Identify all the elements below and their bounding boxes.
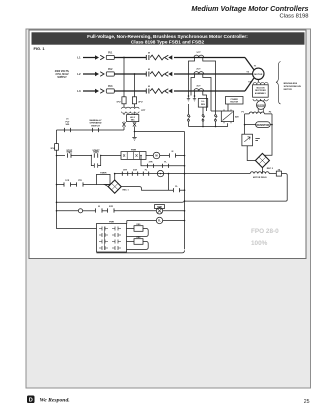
svg-text:M: M (155, 154, 157, 158)
OL heater pole 2 (150, 72, 164, 77)
wire coil drop to relay row (168, 174, 170, 191)
svg-text:3TR: 3TR (123, 170, 127, 172)
svg-text:PWR: PWR (131, 149, 137, 151)
svg-text:We Respond.: We Respond. (40, 397, 70, 403)
wire T3 diagonal to motor (245, 78, 254, 91)
rotating rectifier assembly box (253, 85, 269, 97)
drawout stabs control right (133, 122, 136, 126)
black title bar (32, 32, 305, 44)
rectifier REC 2 (255, 153, 269, 167)
footer Square D logo (27, 396, 35, 404)
svg-text:480 V: 480 V (130, 116, 136, 119)
field control device box (242, 134, 253, 146)
wire phase L3 (83, 90, 95, 92)
svg-text:Full-Voltage, Non-Reversing, B: Full-Voltage, Non-Reversing, Brushless S… (87, 34, 248, 40)
thermal switch TS (269, 173, 276, 175)
OL heater pole 1 (150, 55, 164, 60)
secondary block box (124, 113, 135, 115)
svg-text:1CR: 1CR (65, 180, 70, 182)
svg-text:25: 25 (304, 399, 310, 405)
svg-text:TIMER: TIMER (100, 172, 107, 174)
svg-text:2TR: 2TR (149, 161, 153, 163)
wire rectifier to field (261, 168, 263, 174)
svg-text:SWITCH: SWITCH (91, 125, 100, 127)
rotating rectifier winding bottom (253, 99, 268, 101)
disconnect DS3 (95, 89, 99, 94)
test link 3 (215, 115, 217, 117)
svg-text:Class 8198 Type FSB1 and FSB2: Class 8198 Type FSB1 and FSB2 (131, 40, 205, 46)
svg-text:AM: AM (235, 116, 239, 119)
transformer CPT primary (124, 104, 135, 107)
svg-text:L3: L3 (77, 89, 81, 93)
svg-text:L2: L2 (77, 72, 81, 76)
wire F1 down to control box (244, 125, 246, 135)
svg-text:EXCITER: EXCITER (257, 105, 266, 107)
svg-text:1TR: 1TR (78, 180, 82, 182)
ground CT mid (194, 95, 196, 97)
wire west rail (57, 129, 125, 131)
wire left rail (57, 130, 97, 229)
wire rec1 to relay row (121, 187, 173, 191)
wire L1 to contact (114, 57, 146, 59)
wire L2 to contact (114, 73, 146, 75)
row 5: field contactor coils (56, 210, 58, 212)
svg-text:Medium Voltage Motor Controlle: Medium Voltage Motor Controllers (191, 4, 308, 13)
relay box SR (198, 99, 207, 108)
label box FWR (155, 205, 165, 209)
drawout stabs pole 1 (165, 55, 169, 60)
svg-text:1CT: 1CT (196, 52, 201, 54)
svg-text:1FU: 1FU (116, 101, 121, 103)
svg-text:O.L.: O.L. (201, 101, 205, 103)
coil FC (156, 208, 162, 214)
field resistor (245, 123, 272, 125)
wire row1 (57, 155, 66, 157)
wire L3 to contact (114, 90, 146, 92)
disconnect DS2 (95, 72, 99, 77)
svg-text:FU2: FU2 (108, 69, 113, 71)
row 1: start/stop (56, 155, 58, 157)
rectifier REC 1 (105, 185, 111, 187)
svg-text:OPERATED: OPERATED (90, 122, 102, 125)
svg-text:MOTOR: MOTOR (284, 89, 293, 91)
svg-text:ASSEMBLY: ASSEMBLY (255, 92, 267, 95)
svg-text:2CT: 2CT (196, 69, 201, 71)
svg-text:SUPPLY: SUPPLY (57, 76, 67, 79)
contact CR instant (78, 209, 82, 213)
test link 2 (202, 115, 204, 117)
drawout stabs pole 2 (165, 72, 169, 77)
ammeter AM box (221, 111, 233, 122)
rotating rectifier winding top (253, 83, 268, 85)
label marks right of box (255, 139, 259, 141)
svg-text:M: M (148, 53, 150, 55)
OL heater pole 3 (150, 89, 164, 94)
svg-text:SILICON: SILICON (256, 87, 265, 89)
wire CT3 secondary left (194, 91, 196, 96)
drawout stabs control left (122, 122, 125, 126)
wire east rail (135, 131, 185, 133)
wire field return loop (185, 174, 288, 202)
wire L3 to CT3 (174, 90, 245, 92)
wire metering bus (189, 111, 228, 127)
panel exit row A (127, 228, 135, 230)
wire CT2 secondary right (203, 74, 211, 111)
svg-text:MOTOR: MOTOR (254, 74, 263, 76)
wire CT2 secondary left (191, 74, 195, 96)
exciter armature (260, 100, 262, 102)
exciter field winding F1-F2 (245, 112, 272, 117)
wire T1 diagonal to motor (245, 58, 254, 70)
row 2: aux contacts (141, 156, 185, 166)
svg-text:MOTOR FIELD: MOTOR FIELD (253, 177, 267, 179)
svg-text:Class 8198: Class 8198 (279, 14, 308, 20)
svg-text:FIG. 1: FIG. 1 (34, 46, 46, 51)
row 4: rectifier REC1 row (56, 184, 58, 186)
white figure box (29, 30, 306, 259)
svg-text:2CR: 2CR (133, 170, 138, 172)
coil FL (156, 217, 162, 223)
svg-text:FU1: FU1 (108, 53, 113, 55)
wire L1 to CT1 (174, 57, 245, 59)
svg-text:BRUSHLESS: BRUSHLESS (284, 83, 298, 85)
wire CT3 secondary right (203, 91, 207, 111)
svg-text:SEC: SEC (131, 120, 136, 122)
brace brushless synchronous motor (276, 62, 281, 105)
wire rec1 top to row3 (114, 174, 116, 180)
svg-text:RECTIFIER: RECTIFIER (255, 90, 266, 92)
seal-in contact M (91, 156, 100, 168)
svg-text:POWER: POWER (231, 99, 239, 101)
coil M (153, 152, 160, 159)
schematic group (50, 52, 301, 253)
svg-text:3CT: 3CT (196, 86, 201, 88)
wire field row (115, 173, 251, 175)
wire L2 to CT2 (174, 73, 253, 75)
wire tap from L2 (134, 74, 136, 97)
panel internal contacts (104, 227, 106, 250)
svg-text:PWR: PWR (109, 221, 114, 223)
wire F2 branch to rectifier (264, 125, 272, 156)
selector switch contact (89, 119, 102, 127)
wire phase L2 (83, 73, 95, 75)
drawout stabs pole 3 (165, 89, 169, 94)
wire CT1 secondary right (203, 58, 216, 112)
wire tap from L1 (123, 58, 125, 97)
svg-text:2FU: 2FU (138, 101, 143, 103)
motor field winding (250, 172, 269, 174)
wire box to rectifier (247, 146, 255, 161)
panel exit row B (127, 241, 135, 243)
svg-text:I.T.: I.T. (66, 119, 69, 121)
gray panel (26, 29, 311, 388)
svg-text:100%: 100% (251, 240, 268, 247)
svg-text:START: START (92, 149, 100, 152)
row 6: field loss relay coil (127, 221, 157, 224)
svg-text:REC 1: REC 1 (123, 189, 130, 191)
svg-text:CPT: CPT (141, 110, 146, 112)
svg-text:RESISTOR: RESISTOR (257, 124, 270, 127)
wire bottom rail (97, 250, 185, 253)
supply label block (55, 70, 70, 79)
svg-text:REC 2: REC 2 (267, 168, 274, 170)
svg-text:FACTOR: FACTOR (230, 101, 238, 104)
svg-text:2CR: 2CR (109, 206, 114, 208)
svg-text:D: D (29, 398, 33, 404)
ground CT left (188, 95, 190, 97)
coil CR (157, 170, 163, 176)
svg-text:MANUALLY: MANUALLY (89, 119, 102, 122)
svg-text:M: M (148, 86, 150, 88)
svg-text:L1: L1 (77, 56, 81, 60)
svg-text:M: M (148, 69, 150, 71)
wire CT1 secondary left (189, 58, 195, 96)
motor stator M1 (253, 68, 264, 79)
wattmeter box (226, 97, 244, 105)
test link 1 (188, 115, 190, 117)
svg-text:SW.: SW. (65, 124, 69, 126)
transformer CPT secondary (122, 112, 140, 114)
wire phase L1 (83, 57, 95, 59)
svg-text:FPO 28-0: FPO 28-0 (251, 228, 279, 235)
wire trunk (184, 132, 186, 250)
disconnect DS1 (95, 55, 99, 60)
OL relay contact (65, 119, 70, 126)
svg-text:PLT: PLT (66, 121, 71, 123)
ground control (134, 131, 136, 133)
svg-text:FU3: FU3 (108, 86, 113, 88)
svg-text:SYNCHRONOUS: SYNCHRONOUS (284, 86, 302, 88)
